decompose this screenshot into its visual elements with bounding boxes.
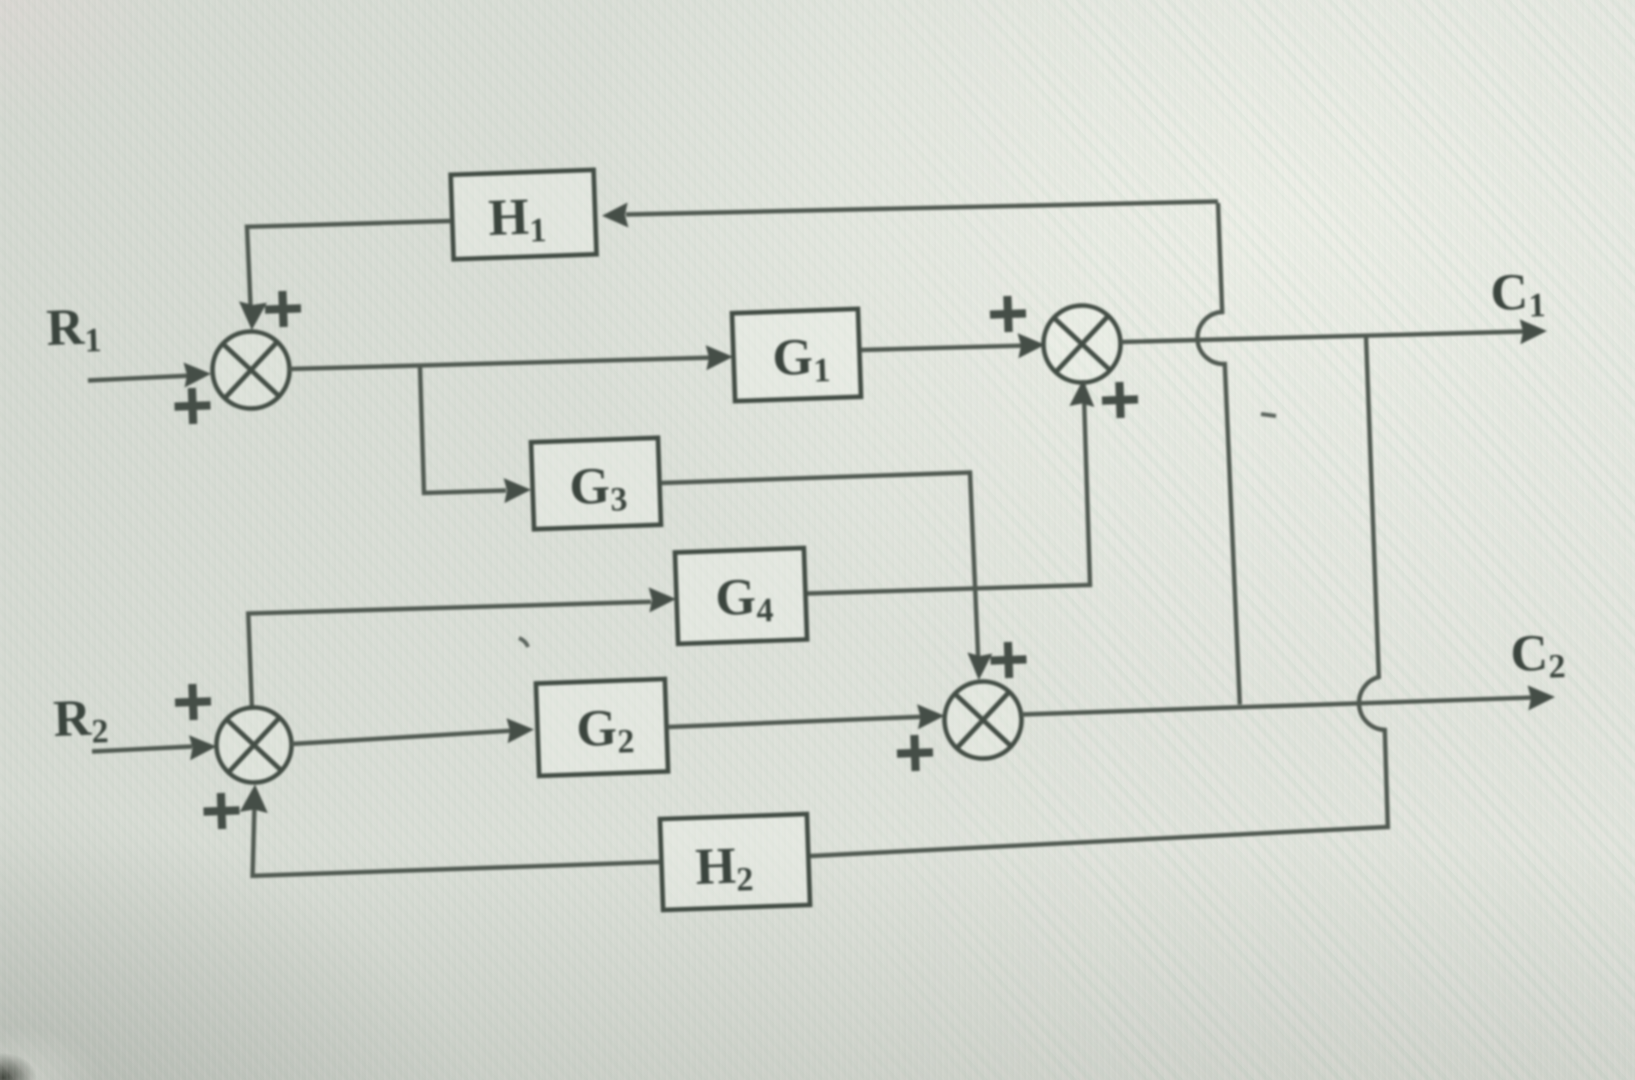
summing junction S1 bbox=[211, 330, 291, 410]
summing junction S3 bbox=[943, 680, 1023, 760]
arrowhead R2 into summer S4 bbox=[189, 735, 217, 760]
wire S1 output to G1 bbox=[289, 358, 716, 370]
node R2 label bbox=[52, 689, 109, 752]
wire C1 tap down over C2 to H2 input (with crossover hop) bbox=[811, 336, 1388, 856]
wire C2 output line from S3 bbox=[1022, 698, 1532, 715]
wire R1 input line bbox=[88, 376, 193, 381]
wire G4 output up into summer S2 bbox=[807, 381, 1090, 594]
node C2 label bbox=[1509, 624, 1566, 687]
plus sign S4 lower input bbox=[203, 792, 240, 829]
wire G3 output down into summer S3 bbox=[661, 473, 978, 659]
plus sign S2 lower input bbox=[1101, 381, 1138, 418]
arrowhead C1 output bbox=[1520, 319, 1547, 344]
wire G2 output to summer S3 bbox=[668, 717, 929, 728]
arrowhead into G3 bbox=[504, 478, 531, 503]
wire C1 output line from S2 bbox=[1121, 332, 1525, 343]
arrowhead into S3 bbox=[917, 704, 945, 729]
wire R2 input line bbox=[92, 747, 192, 752]
plus sign S3 lower input bbox=[896, 734, 933, 771]
summing junction S4 bbox=[215, 706, 293, 784]
block H1 bbox=[451, 170, 597, 259]
stray pen mark (comma) bbox=[519, 638, 528, 647]
wire H1 output down into summer S1 bbox=[247, 221, 451, 307]
arrowhead G4 into S2 bbox=[1069, 380, 1094, 408]
node C1 label bbox=[1489, 263, 1546, 326]
wire branch from node A down to G3 bbox=[420, 367, 506, 494]
block G4 bbox=[675, 548, 807, 644]
wire S4 output to G2 bbox=[291, 731, 510, 744]
stray mark dash bbox=[1261, 414, 1276, 416]
arrowhead H2 into S4 bbox=[240, 785, 268, 814]
plus sign S2 left input bbox=[989, 295, 1026, 332]
arrowhead G3 into S3 bbox=[967, 653, 992, 681]
svg-text:C1: C1 bbox=[1489, 263, 1546, 326]
wire H2 output left and up into summer S4 bbox=[253, 807, 660, 876]
wire into H1 right side bbox=[626, 202, 1218, 215]
arrowhead R1 into summer S1 bbox=[184, 363, 212, 388]
arrowhead into G4 bbox=[649, 587, 676, 612]
wire S4 output up and right to G4 bbox=[248, 602, 651, 709]
arrowhead C2 output bbox=[1528, 685, 1555, 710]
wire G1 output to summer S2 bbox=[861, 346, 1027, 351]
arrowhead H1 into S1 bbox=[239, 301, 267, 330]
plus sign S4 upper input bbox=[174, 683, 211, 720]
plus sign S3 upper input bbox=[990, 641, 1027, 678]
svg-text:C2: C2 bbox=[1509, 624, 1566, 687]
wire C2 tap up over C1 to H1 input (with crossover hop) bbox=[1197, 203, 1239, 705]
arrowhead into H1 bbox=[602, 203, 628, 228]
svg-text:R2: R2 bbox=[52, 689, 109, 752]
plus sign S1 upper input bbox=[264, 290, 301, 327]
block G2 bbox=[536, 679, 668, 776]
arrowhead into S2 bbox=[1018, 333, 1045, 358]
summing junction S2 bbox=[1042, 304, 1122, 384]
arrowhead into G1 bbox=[706, 345, 733, 370]
block G1 bbox=[732, 309, 861, 401]
node R1 label bbox=[45, 298, 102, 361]
svg-text:R1: R1 bbox=[45, 298, 102, 361]
block H2 bbox=[660, 814, 810, 910]
plus sign S1 left input bbox=[174, 387, 211, 424]
block G3 bbox=[531, 438, 661, 529]
arrowhead into G2 bbox=[507, 718, 535, 743]
